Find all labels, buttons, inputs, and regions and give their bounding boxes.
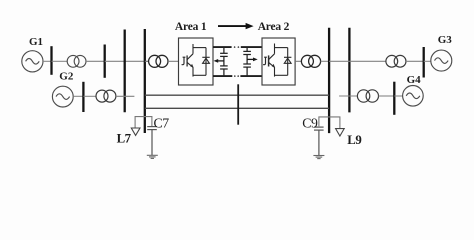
wire T1 to bus B — [86, 60, 105, 62]
wire bus B to bus 7 area — [105, 60, 149, 62]
capacitor C1a (left dc-link top) — [220, 47, 228, 66]
generator G3 — [431, 50, 452, 71]
generator G4 — [403, 86, 424, 107]
wire bus 9 to transformer T3 — [329, 60, 386, 62]
busbar D (bus 4) — [393, 82, 395, 115]
generator G2 — [52, 86, 73, 107]
wire busbar D to G4 — [394, 95, 402, 97]
IGBT Q2 emitter arrowhead — [272, 64, 275, 68]
ground below C7 — [147, 155, 158, 158]
diode D1 — [202, 48, 209, 76]
diode D2 — [284, 48, 291, 76]
capacitor C9 — [314, 127, 324, 155]
busbar bus 6 (tall left outer) — [124, 30, 126, 113]
busbar bus 9 (tall right inner) — [328, 28, 330, 133]
capacitor C2b (right dc-link bottom) — [243, 64, 251, 76]
tie line 1 (bus 7 to bus 9) — [145, 94, 329, 96]
svg-text:G3: G3 — [438, 34, 453, 46]
svg-text:L7: L7 — [117, 131, 132, 145]
wire busbar C to G3 — [424, 60, 431, 62]
wire T4 to busbar D — [379, 95, 395, 97]
wire T2 past bus 6 — [116, 95, 134, 97]
converter box U1 — [179, 38, 214, 85]
wire top loop box 1 — [193, 47, 206, 49]
IGBT Q1 gate — [182, 57, 186, 64]
svg-text:Area 1: Area 1 — [175, 21, 207, 33]
wire bottom loop box 2 — [275, 74, 288, 76]
busbar A (bus 1) — [50, 46, 52, 75]
IGBT Q1 body — [186, 55, 188, 66]
transformer T1 — [67, 55, 86, 67]
capacitor C7 — [147, 127, 157, 156]
IGBT Q1 collector lead — [192, 44, 194, 54]
load L9 triangle — [336, 129, 345, 136]
ground below C9 — [313, 156, 324, 159]
svg-text:G1: G1 — [29, 36, 43, 48]
svg-text:C9: C9 — [302, 116, 318, 131]
dash-dot marks bottom rail — [234, 75, 239, 77]
wire G2 to its busbar — [73, 95, 83, 97]
wire C9 L9 branch — [319, 117, 340, 129]
arrow dc midpoint into box 2 — [247, 58, 258, 62]
transformer converter right — [301, 55, 320, 67]
tie line 2 (bus 7 to bus 9) — [145, 107, 329, 109]
transformer T4 — [357, 90, 378, 102]
busbar bus 7 (tall left inner) — [144, 29, 146, 133]
arrow dc midpoint into box 1 — [214, 59, 224, 63]
transformer T2 — [96, 90, 116, 102]
IGBT Q2 emitter lead — [274, 67, 276, 76]
IGBT Q2 body — [268, 55, 270, 66]
capacitor C2a (right dc-link top) — [243, 47, 251, 64]
wire L7 C7 branch — [135, 117, 152, 128]
busbar bus 8 (middle) — [237, 84, 239, 124]
dc rail top — [213, 46, 262, 48]
wire T3 to busbar C — [406, 60, 424, 62]
wire box 2 to right transformer — [295, 60, 301, 62]
wire transformer to converter box 1 — [168, 60, 179, 62]
wire top loop box 2 — [275, 47, 288, 49]
svg-text:C7: C7 — [154, 116, 170, 131]
load L7 triangle — [131, 128, 140, 135]
IGBT Q2 collector lead — [274, 44, 276, 54]
busbar C (bus 3) — [423, 47, 425, 78]
IGBT Q2 gate — [263, 57, 267, 64]
busbar B (bus 5) — [104, 45, 106, 78]
transformer converter left — [149, 55, 168, 67]
wire G2 busbar to transformer T2 — [83, 95, 96, 97]
transformer T3 — [386, 55, 406, 67]
wire bottom loop box 1 — [193, 74, 206, 76]
IGBT Q1 emitter lead — [192, 67, 194, 76]
arrow Area 1 to Area 2 — [218, 23, 254, 29]
busbar bus 10 (tall right outer) — [348, 28, 350, 113]
svg-text:G2: G2 — [59, 70, 74, 82]
wire G1 to bus A — [43, 60, 52, 62]
svg-text:L9: L9 — [347, 133, 361, 147]
generator G1 — [22, 51, 43, 72]
converter box U2 — [262, 38, 295, 85]
capacitor C1b (left dc-link bottom) — [220, 66, 228, 76]
dc rail bottom — [213, 75, 262, 77]
IGBT Q1 emitter arrowhead — [190, 64, 193, 68]
svg-text:Area 2: Area 2 — [258, 21, 290, 33]
svg-text:G4: G4 — [407, 74, 422, 86]
wire bus 7 to converter transformer — [145, 60, 149, 62]
wire transformer to bus 9 — [321, 60, 330, 62]
busbar G2 (bus 2) — [82, 82, 84, 112]
wire bus A to transformer T1 — [52, 60, 68, 62]
dash-dot marks top rail — [234, 46, 239, 48]
wire G4 row left stub — [339, 95, 357, 97]
